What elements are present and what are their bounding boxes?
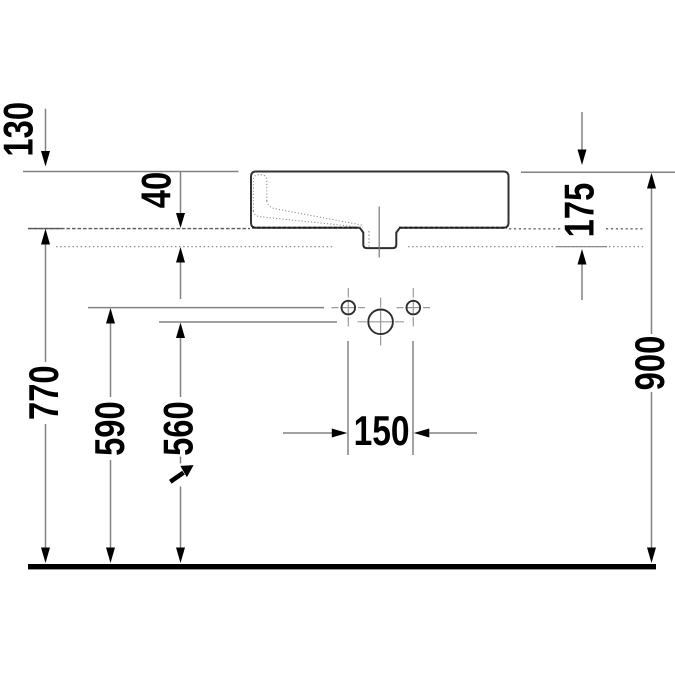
- dimension 770 label: [20, 365, 67, 420]
- faucet hole right crosshair: [397, 288, 431, 327]
- svg-text:900: 900: [626, 336, 673, 391]
- drain inner dotted line: [368, 231, 370, 247]
- faucet hole right circle: [407, 301, 421, 315]
- dimension 770 arrow down: [41, 548, 50, 564]
- svg-text:150: 150: [354, 408, 410, 454]
- dimension 770 line: [45, 245, 47, 363]
- dimension 590 label: [86, 401, 133, 456]
- svg-text:175: 175: [556, 183, 603, 238]
- svg-text:130: 130: [0, 102, 42, 157]
- node dotted underside line B right: [408, 246, 645, 248]
- svg-text:770: 770: [20, 365, 67, 420]
- dimension 150 left arrow: [283, 432, 332, 434]
- node dashed countertop line right: [509, 228, 562, 230]
- dimension 560 line: [180, 338, 182, 397]
- dimension 40 line top: [180, 172, 182, 214]
- dimension 900 arrow down: [647, 548, 656, 564]
- dimension 590 line: [110, 324, 112, 398]
- faucet hole center circle: [368, 310, 393, 335]
- dimension 560 arrow up: [176, 323, 185, 339]
- basin interior section profile (dotted): [253, 175, 363, 228]
- node solid tick at 770 arrow: [28, 228, 62, 230]
- dimension 175 arrow up: [578, 249, 587, 265]
- drain centerline: [378, 207, 380, 258]
- svg-text:560: 560: [155, 401, 202, 456]
- dimension 175 tail: [581, 265, 583, 301]
- washbasin bottom dashed edge: [252, 227, 361, 229]
- dimension 590 arrow down: [106, 548, 115, 564]
- dimension 40 arrow up: [176, 247, 185, 263]
- dimension 900 line: [651, 189, 653, 335]
- dimension 130 line: [45, 109, 47, 152]
- faucet hole left crosshair: [332, 288, 366, 327]
- faucet hole left circle: [342, 301, 356, 315]
- washbasin outline: [251, 172, 509, 228]
- faucet hole center crosshair: [358, 298, 405, 346]
- dimension 40 label: [133, 172, 180, 208]
- node dashed countertop line left: [28, 228, 250, 230]
- faucet reference line D: [159, 321, 337, 323]
- drain fitting: [360, 228, 399, 248]
- dimension 770 arrow up: [41, 229, 50, 245]
- wire top reference line left: [23, 171, 239, 173]
- node solid tick at 175 arrow: [556, 246, 607, 248]
- dimension 130 arrow: [41, 151, 50, 167]
- dimension 590 arrow up: [106, 308, 115, 324]
- faucet reference line C: [88, 307, 324, 309]
- dimension 560 label: [155, 401, 202, 456]
- dimension 40 tail: [180, 263, 182, 300]
- direction arrow northeast: [170, 465, 193, 482]
- floor line: [28, 564, 656, 569]
- dimension 900 label: [626, 336, 673, 391]
- dimension 560 arrow down: [176, 548, 185, 564]
- dimension 175 line top: [581, 112, 583, 150]
- dimension 150 extension line left: [347, 341, 349, 455]
- dimension 150 extension line right: [412, 341, 414, 455]
- dimension 150 right arrow: [414, 429, 430, 438]
- dimension 40 arrow down: [176, 213, 185, 228]
- dimension 175 label: [556, 183, 603, 238]
- svg-text:590: 590: [86, 401, 133, 456]
- svg-text:40: 40: [133, 172, 180, 208]
- dimension 150 label: [354, 408, 410, 454]
- dimension 175 arrow down: [578, 150, 587, 166]
- dimension 130 label: [0, 102, 42, 157]
- node dotted underside line B left: [56, 246, 333, 248]
- wire top reference line right: [521, 171, 675, 173]
- dimension 900 arrow up: [647, 173, 656, 189]
